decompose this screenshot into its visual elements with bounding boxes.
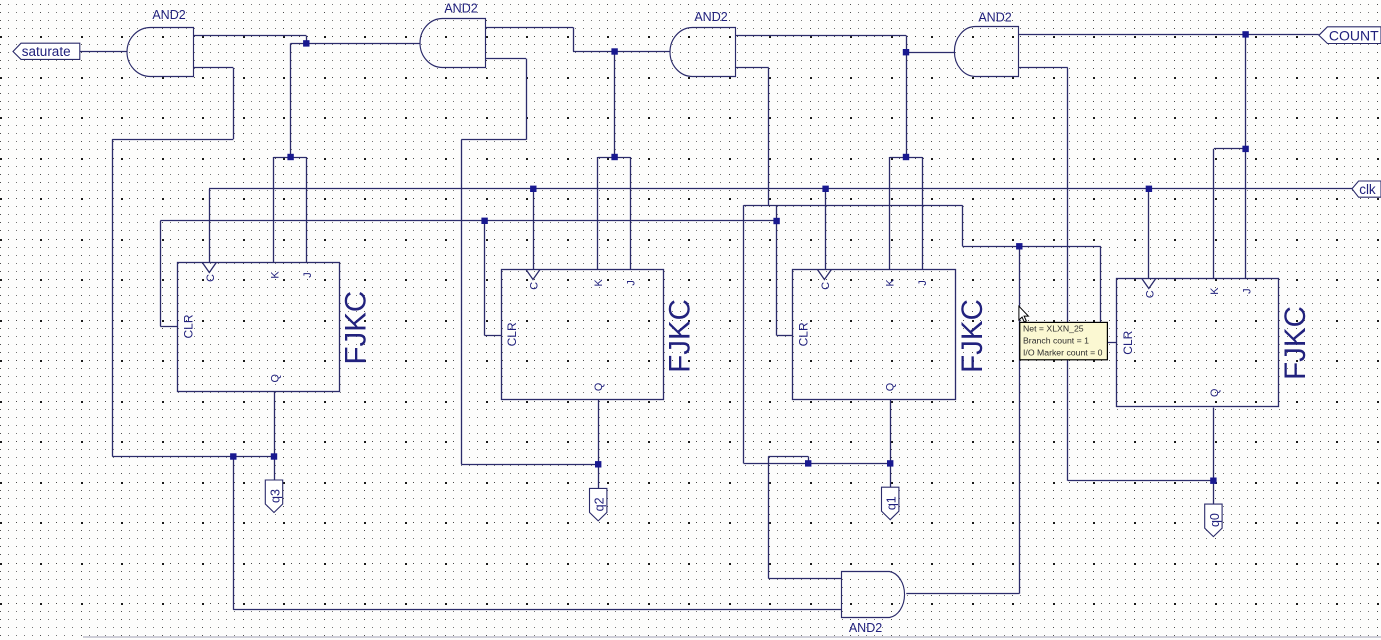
svg-text:FJKC: FJKC [1279,306,1312,380]
svg-text:CLR: CLR [505,322,519,346]
svg-text:q0: q0 [1208,513,1222,527]
svg-text:Q: Q [884,383,896,391]
svg-text:q2: q2 [593,497,607,511]
svg-text:q1: q1 [885,496,899,510]
svg-text:Net = XLXN_25: Net = XLXN_25 [1023,323,1084,333]
svg-text:Q: Q [1209,389,1221,397]
svg-text:C: C [1144,290,1156,298]
svg-text:C: C [820,282,832,290]
svg-text:Branch count = 1: Branch count = 1 [1023,335,1089,345]
svg-text:AND2: AND2 [444,2,477,16]
svg-text:J: J [626,280,638,285]
svg-text:J: J [917,280,929,285]
svg-text:J: J [302,272,314,277]
svg-text:AND2: AND2 [152,8,185,22]
svg-text:FJKC: FJKC [956,299,989,373]
svg-text:FJKC: FJKC [663,299,696,373]
svg-text:I/O Marker count = 0: I/O Marker count = 0 [1023,347,1103,357]
svg-text:Q: Q [593,383,605,391]
svg-text:C: C [205,274,217,282]
svg-text:K: K [593,279,605,287]
svg-text:AND2: AND2 [849,621,882,635]
svg-text:q3: q3 [268,489,282,503]
svg-text:CLR: CLR [1121,330,1135,354]
svg-text:CLR: CLR [181,314,195,338]
svg-text:saturate: saturate [22,44,71,59]
svg-text:AND2: AND2 [694,10,727,24]
svg-text:J: J [1241,288,1253,293]
svg-text:C: C [529,282,541,290]
svg-text:K: K [1209,287,1221,295]
svg-text:Q: Q [269,374,281,382]
svg-text:clk: clk [1359,182,1376,197]
svg-text:K: K [884,279,896,287]
svg-text:CLR: CLR [796,322,810,346]
svg-text:AND2: AND2 [978,10,1011,24]
svg-text:FJKC: FJKC [339,291,372,365]
svg-text:K: K [269,271,281,279]
svg-text:COUNT: COUNT [1329,27,1379,43]
